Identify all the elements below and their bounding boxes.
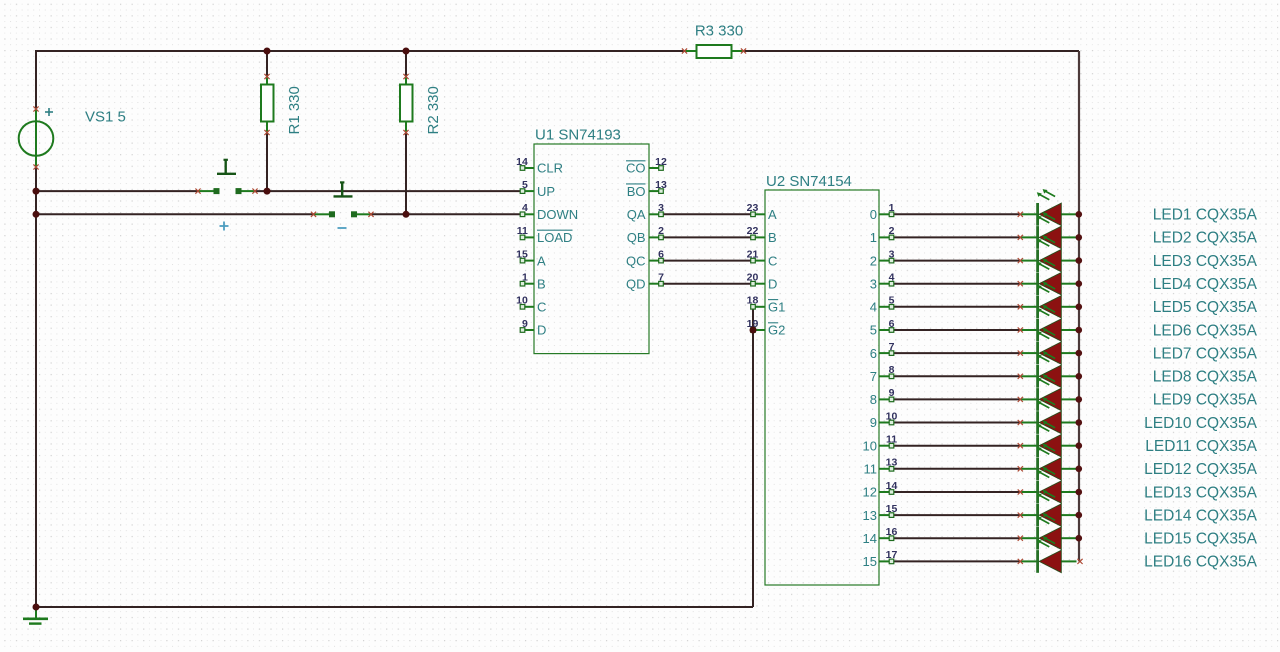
svg-text:18: 18 bbox=[747, 295, 759, 307]
svg-text:UP: UP bbox=[537, 184, 555, 199]
svg-text:15: 15 bbox=[516, 248, 528, 260]
svg-text:21: 21 bbox=[747, 248, 759, 260]
svg-text:A: A bbox=[537, 253, 546, 268]
svg-text:B: B bbox=[768, 230, 777, 245]
svg-text:3: 3 bbox=[658, 202, 664, 214]
svg-text:10: 10 bbox=[516, 295, 528, 307]
svg-text:QD: QD bbox=[626, 276, 646, 291]
svg-text:2: 2 bbox=[870, 253, 877, 268]
svg-text:LED12 CQX35A: LED12 CQX35A bbox=[1144, 461, 1258, 478]
svg-text:1: 1 bbox=[870, 230, 877, 245]
svg-text:22: 22 bbox=[747, 225, 759, 237]
svg-text:CLR: CLR bbox=[537, 161, 563, 176]
svg-text:LED10 CQX35A: LED10 CQX35A bbox=[1144, 415, 1258, 432]
svg-text:R1 330: R1 330 bbox=[286, 86, 303, 134]
svg-text:R3 330: R3 330 bbox=[695, 23, 743, 40]
svg-text:LOAD: LOAD bbox=[537, 230, 572, 245]
svg-text:LED11 CQX35A: LED11 CQX35A bbox=[1145, 438, 1257, 455]
svg-text:17: 17 bbox=[886, 549, 898, 561]
svg-text:LED14 CQX35A: LED14 CQX35A bbox=[1144, 507, 1258, 524]
svg-text:U1 SN74193: U1 SN74193 bbox=[535, 127, 621, 144]
svg-text:12: 12 bbox=[655, 156, 667, 168]
svg-text:9: 9 bbox=[522, 318, 528, 330]
svg-text:3: 3 bbox=[889, 248, 895, 260]
svg-text:14: 14 bbox=[863, 531, 877, 546]
svg-text:LED13 CQX35A: LED13 CQX35A bbox=[1144, 484, 1258, 501]
svg-text:LED4 CQX35A: LED4 CQX35A bbox=[1153, 276, 1258, 293]
svg-text:LED8 CQX35A: LED8 CQX35A bbox=[1153, 369, 1258, 386]
svg-text:C: C bbox=[768, 253, 777, 268]
svg-text:12: 12 bbox=[863, 485, 877, 500]
svg-text:13: 13 bbox=[886, 457, 898, 469]
svg-text:11: 11 bbox=[864, 462, 878, 477]
svg-text:LED16 CQX35A: LED16 CQX35A bbox=[1144, 554, 1258, 571]
svg-text:19: 19 bbox=[747, 318, 759, 330]
svg-text:QC: QC bbox=[626, 253, 646, 268]
svg-text:1: 1 bbox=[522, 272, 528, 284]
svg-text:11: 11 bbox=[886, 434, 897, 446]
svg-text:G1: G1 bbox=[768, 300, 785, 315]
svg-text:D: D bbox=[768, 276, 777, 291]
svg-text:QA: QA bbox=[627, 207, 646, 222]
svg-text:10: 10 bbox=[863, 438, 877, 453]
svg-text:9: 9 bbox=[889, 387, 895, 399]
svg-text:16: 16 bbox=[886, 526, 898, 538]
svg-text:13: 13 bbox=[655, 179, 667, 191]
svg-text:G2: G2 bbox=[768, 323, 785, 338]
svg-text:LED1 CQX35A: LED1 CQX35A bbox=[1153, 207, 1258, 224]
svg-text:4: 4 bbox=[870, 300, 877, 315]
svg-text:7: 7 bbox=[658, 272, 664, 284]
svg-text:2: 2 bbox=[658, 225, 664, 237]
svg-text:BO: BO bbox=[627, 184, 646, 199]
svg-text:8: 8 bbox=[889, 364, 895, 376]
svg-text:D: D bbox=[537, 323, 546, 338]
svg-text:CO: CO bbox=[626, 161, 646, 176]
svg-text:5: 5 bbox=[522, 179, 528, 191]
svg-text:LED9 CQX35A: LED9 CQX35A bbox=[1153, 392, 1258, 409]
svg-text:14: 14 bbox=[886, 480, 898, 492]
svg-text:VS1 5: VS1 5 bbox=[85, 109, 126, 126]
svg-text:7: 7 bbox=[889, 341, 895, 353]
svg-text:C: C bbox=[537, 300, 546, 315]
svg-text:6: 6 bbox=[658, 248, 664, 260]
svg-text:R2 330: R2 330 bbox=[425, 86, 442, 134]
svg-text:U2 SN74154: U2 SN74154 bbox=[766, 173, 852, 190]
svg-text:10: 10 bbox=[886, 410, 898, 422]
svg-text:LED3 CQX35A: LED3 CQX35A bbox=[1153, 253, 1258, 270]
svg-text:11: 11 bbox=[517, 225, 528, 237]
svg-text:7: 7 bbox=[870, 369, 877, 384]
svg-text:LED5 CQX35A: LED5 CQX35A bbox=[1153, 299, 1258, 316]
svg-text:15: 15 bbox=[886, 503, 898, 515]
svg-text:LED6 CQX35A: LED6 CQX35A bbox=[1153, 322, 1258, 339]
svg-text:13: 13 bbox=[863, 508, 877, 523]
svg-text:6: 6 bbox=[889, 318, 895, 330]
svg-text:1: 1 bbox=[889, 202, 895, 214]
svg-text:5: 5 bbox=[870, 323, 877, 338]
svg-text:4: 4 bbox=[889, 272, 895, 284]
svg-text:20: 20 bbox=[747, 272, 759, 284]
svg-text:LED7 CQX35A: LED7 CQX35A bbox=[1153, 345, 1258, 362]
svg-text:2: 2 bbox=[889, 225, 895, 237]
svg-text:9: 9 bbox=[870, 415, 877, 430]
svg-text:15: 15 bbox=[863, 554, 877, 569]
svg-text:B: B bbox=[537, 276, 546, 291]
svg-text:3: 3 bbox=[870, 276, 877, 291]
svg-text:DOWN: DOWN bbox=[537, 207, 578, 222]
svg-text:A: A bbox=[768, 207, 777, 222]
svg-text:4: 4 bbox=[522, 202, 528, 214]
svg-text:23: 23 bbox=[747, 202, 759, 214]
svg-text:LED15 CQX35A: LED15 CQX35A bbox=[1144, 531, 1258, 548]
svg-text:QB: QB bbox=[627, 230, 646, 245]
svg-text:8: 8 bbox=[870, 392, 877, 407]
svg-text:5: 5 bbox=[889, 295, 895, 307]
svg-text:6: 6 bbox=[870, 346, 877, 361]
svg-text:LED2 CQX35A: LED2 CQX35A bbox=[1153, 230, 1258, 247]
svg-text:14: 14 bbox=[516, 156, 528, 168]
svg-text:0: 0 bbox=[870, 207, 877, 222]
